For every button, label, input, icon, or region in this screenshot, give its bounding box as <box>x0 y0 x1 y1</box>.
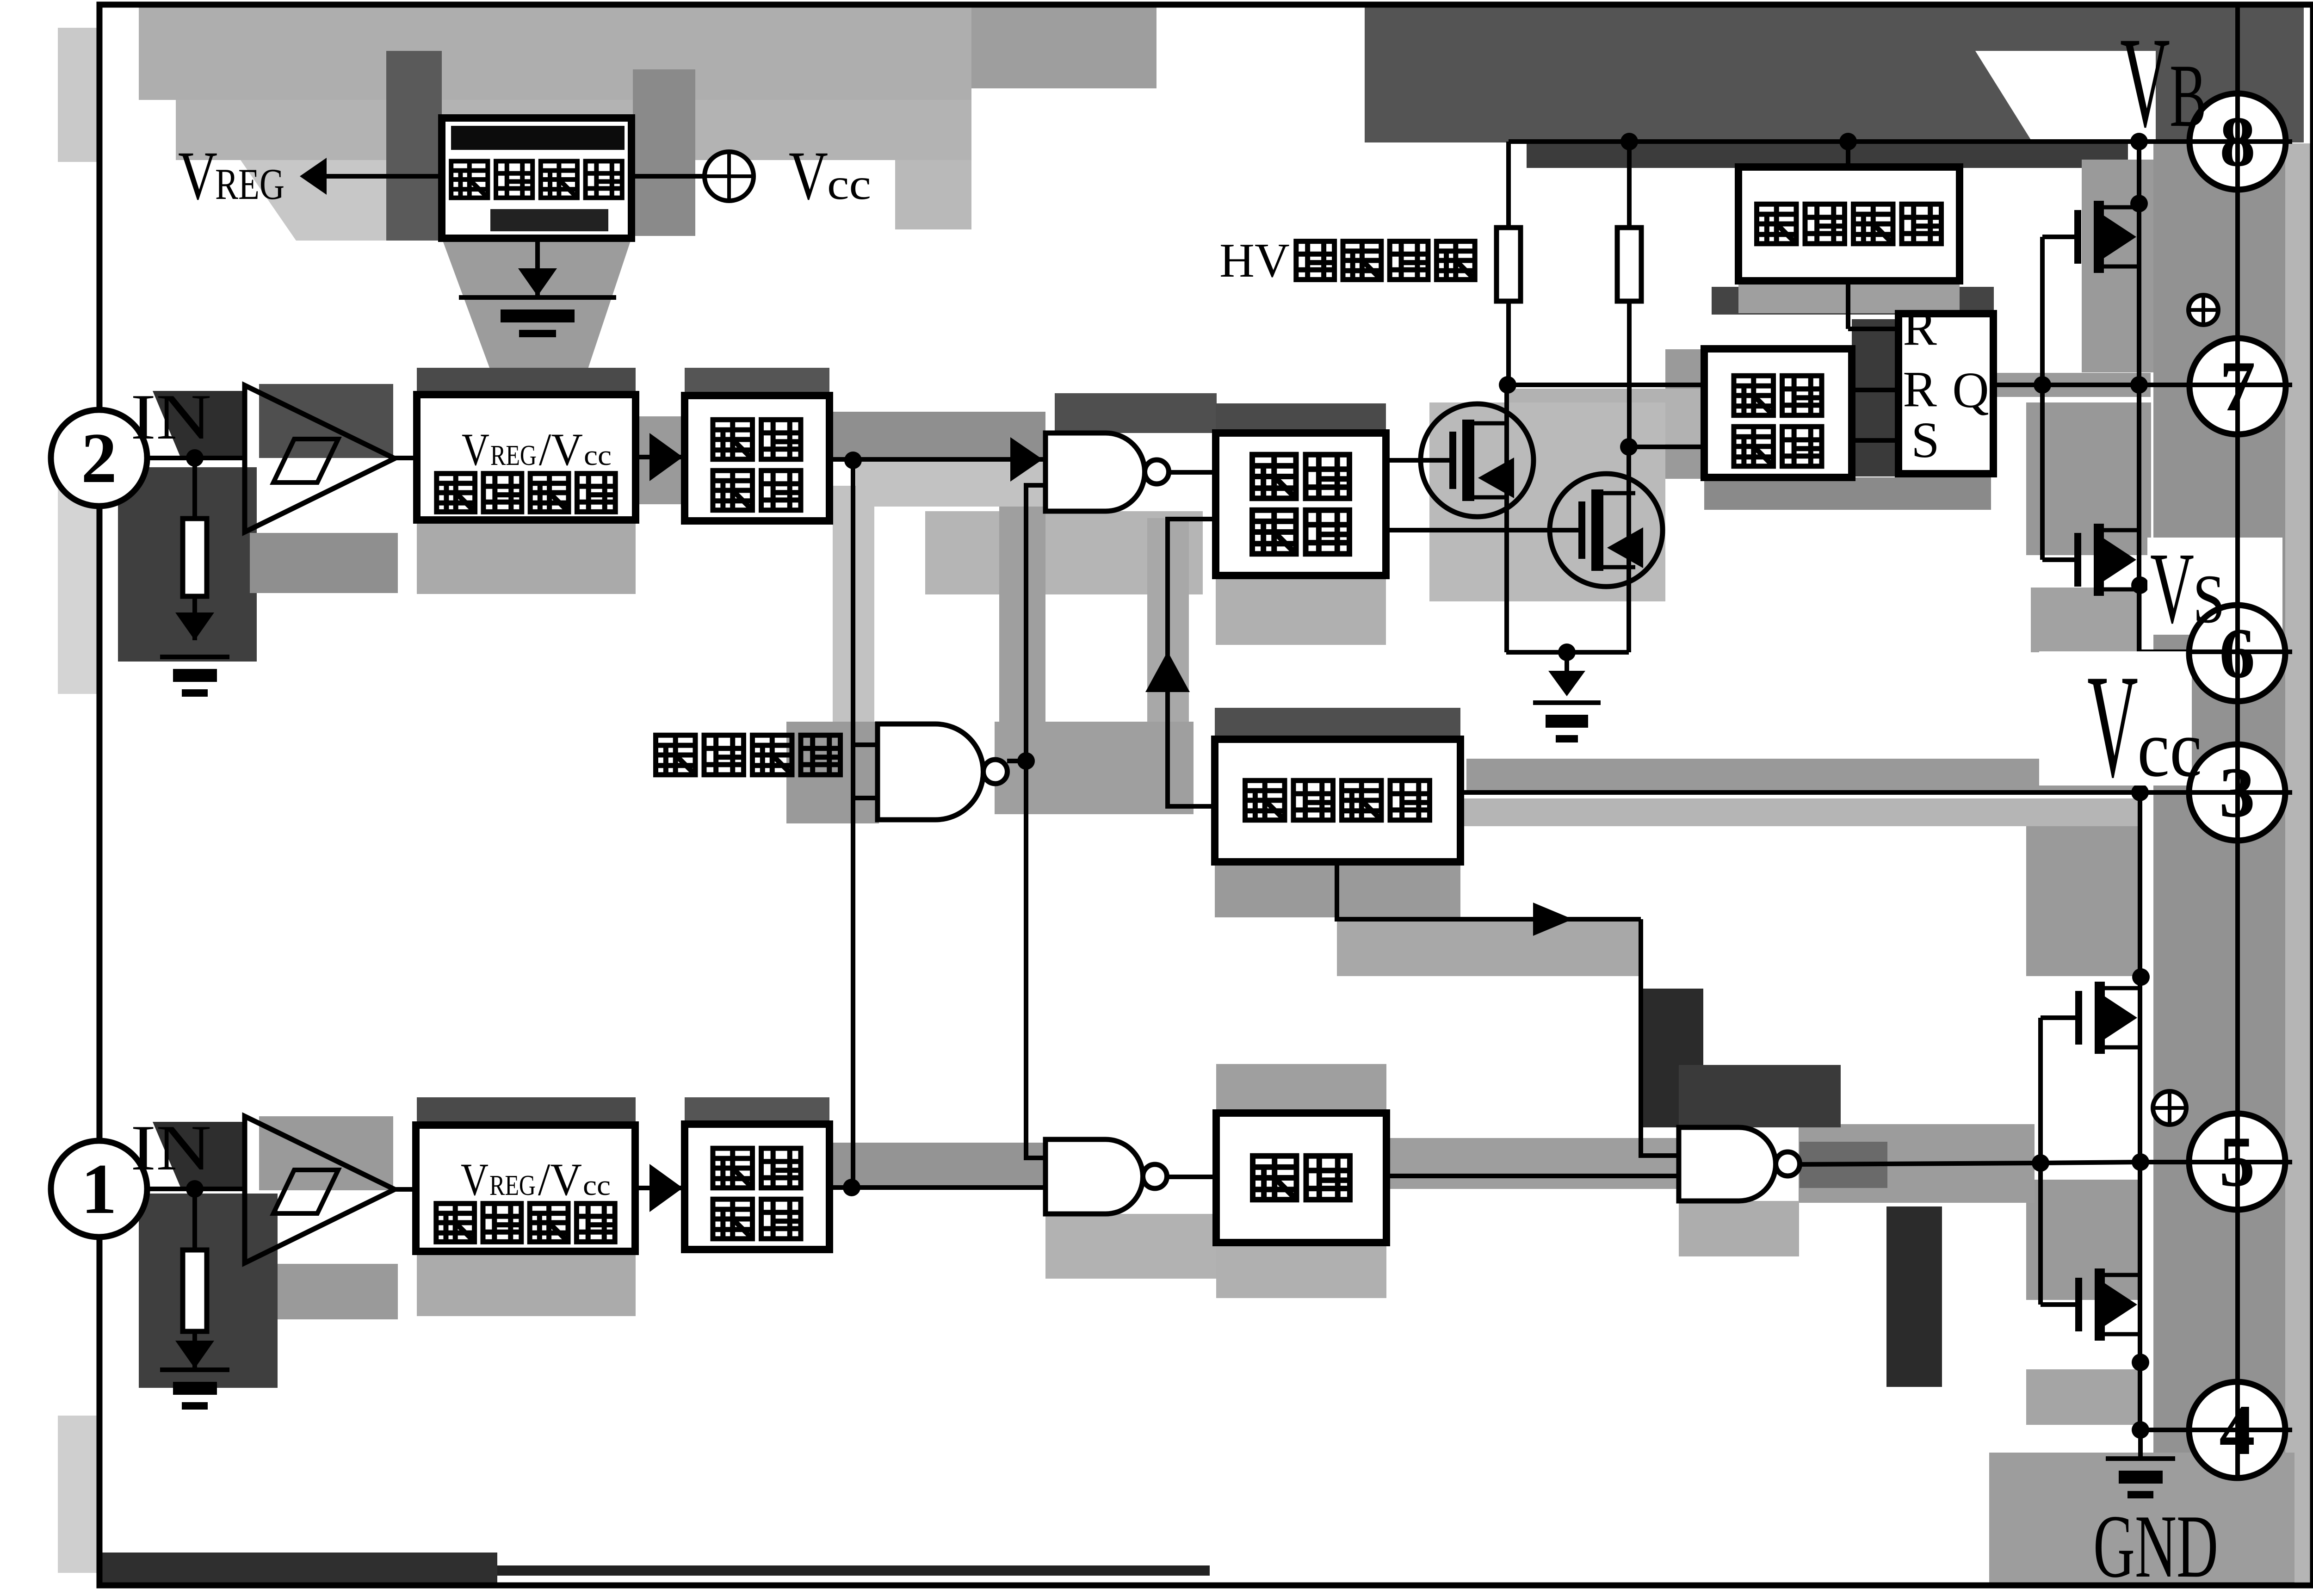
svg-text:GND: GND <box>2093 1497 2218 1596</box>
svg-text:R: R <box>1903 299 1937 356</box>
svg-text:/V: /V <box>538 1154 582 1205</box>
svg-text:V: V <box>2120 10 2170 154</box>
svg-text:S: S <box>2193 561 2225 637</box>
svg-text:REG: REG <box>215 160 284 209</box>
svg-text:V: V <box>2087 644 2138 808</box>
svg-text:REG: REG <box>490 440 537 471</box>
svg-text:cc: cc <box>584 440 612 471</box>
svg-text:2: 2 <box>81 418 117 498</box>
svg-text:V: V <box>178 137 217 214</box>
svg-text:B: B <box>2170 46 2207 146</box>
svg-text:S: S <box>1911 412 1939 468</box>
svg-text:cc: cc <box>2137 704 2202 793</box>
svg-text:REG: REG <box>489 1170 536 1201</box>
svg-text:cc: cc <box>583 1170 611 1201</box>
svg-text:R: R <box>1903 361 1937 417</box>
svg-text:1: 1 <box>81 1149 117 1229</box>
svg-text:HV: HV <box>1219 233 1290 287</box>
svg-text:IN: IN <box>130 1112 211 1184</box>
svg-text:V: V <box>461 1154 489 1205</box>
svg-text:/V: /V <box>539 424 583 475</box>
svg-text:IN: IN <box>130 381 211 453</box>
svg-text:V: V <box>789 137 828 214</box>
svg-text:Q: Q <box>1952 362 1989 418</box>
svg-text:V: V <box>2150 532 2194 644</box>
svg-text:V: V <box>462 424 489 475</box>
svg-text:cc: cc <box>827 160 871 209</box>
